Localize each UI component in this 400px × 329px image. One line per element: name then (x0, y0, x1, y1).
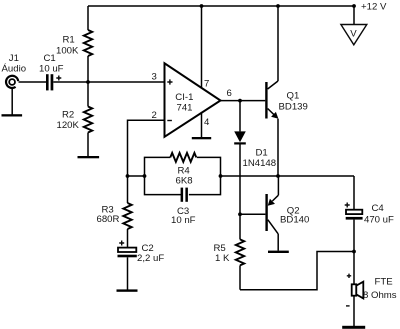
wire op-amp pin 7 to rail (201, 6, 203, 88)
power source symbol V triangle (341, 25, 367, 45)
node junction emitters / output net (276, 174, 280, 178)
node junction box right (219, 174, 223, 178)
node input bias junction (86, 80, 90, 84)
node junction Q2 base / R5 (238, 212, 242, 216)
svg-text:V: V (350, 29, 357, 40)
svg-text:Q1: Q1 (287, 91, 300, 102)
wire C1 to op-amp pin 3 (53, 81, 164, 83)
svg-text:+12 V: +12 V (361, 2, 387, 13)
node junction output / D1 anode (238, 99, 242, 103)
svg-text:8 Ohms: 8 Ohms (363, 290, 397, 301)
svg-text:2,2 uF: 2,2 uF (137, 253, 164, 264)
resistor R4 (170, 153, 196, 162)
svg-text:1N4148: 1N4148 (243, 158, 277, 169)
label R4 6K8 (176, 165, 193, 186)
svg-text:BD140: BD140 (280, 215, 309, 226)
svg-text:R2: R2 (62, 109, 74, 120)
svg-text:D1: D1 (256, 148, 268, 159)
svg-text:7: 7 (204, 79, 209, 90)
svg-text:BD139: BD139 (279, 102, 308, 113)
ground op-amp pin 4 (192, 137, 211, 139)
transistor Q2 BD140 PNP (265, 194, 278, 234)
svg-text:R1: R1 (63, 35, 75, 46)
node junction box left (143, 174, 147, 178)
capacitor C2 polarized (118, 241, 137, 290)
label D1 1N4148 (243, 148, 277, 170)
svg-text:C4: C4 (372, 203, 385, 214)
wire J1 to C1 (19, 81, 47, 83)
wire Q1 collector to rail (277, 6, 279, 81)
svg-text:680R: 680R (97, 214, 120, 225)
label R1 100K (56, 35, 79, 57)
label C2 2,2 uF (137, 243, 164, 264)
svg-text:3: 3 (152, 71, 157, 82)
svg-text:120K: 120K (57, 120, 80, 131)
wire Q2 base (240, 213, 265, 215)
ground C2 (117, 289, 138, 291)
svg-text:Áudio: Áudio (2, 64, 27, 75)
node junction rail / +12V source (352, 4, 356, 8)
node junction feedback / R3 (126, 174, 130, 178)
svg-text:6K8: 6K8 (176, 176, 193, 187)
wire Q2 emitter to output node (277, 176, 279, 195)
wire feedback network box outline (145, 157, 221, 194)
wire Q2 collector to ground (277, 234, 279, 251)
ground speaker (342, 326, 365, 329)
ground R2 (78, 156, 100, 158)
wire op-amp output pin 6 (221, 100, 266, 102)
op-amp U1 CI-1 741 (165, 63, 221, 137)
label Q1 BD139 (279, 91, 308, 113)
label C3 10 nF (171, 206, 196, 226)
node junction rail / Q1 collector (276, 4, 280, 8)
ground J1 (2, 89, 23, 117)
label R3 680R (97, 204, 120, 225)
svg-text:10 nF: 10 nF (171, 215, 196, 226)
wire +12V source stub (353, 6, 355, 25)
label R5 1 K (214, 243, 231, 264)
label C4 470 uF (364, 203, 394, 225)
resistor R5 (236, 214, 244, 289)
svg-text:6: 6 (227, 88, 232, 99)
wire R5 bottom to speaker node (240, 252, 354, 290)
capacitor C3 (181, 188, 188, 202)
ground Q2 collector (268, 251, 289, 253)
node junction C4 / speaker (352, 250, 356, 254)
connector J1 audio input jack (6, 76, 18, 88)
capacitor C1 polarized (46, 74, 61, 90)
label Q2 BD140 (280, 205, 309, 225)
svg-text:741: 741 (177, 102, 193, 113)
svg-text:10 uF: 10 uF (39, 64, 64, 75)
label C1 10 uF (39, 53, 64, 75)
wire feedback node to box (128, 175, 145, 177)
svg-text:FTE: FTE (375, 277, 393, 288)
label J1 Audio (2, 53, 27, 75)
svg-text:2: 2 (152, 110, 157, 121)
speaker FTE 8 Ohms (346, 252, 363, 327)
wire op-amp pin 2 to feedback node (128, 120, 165, 176)
label R2 120K (57, 109, 80, 131)
label FTE 8 Ohms (363, 277, 397, 301)
capacitor C4 polarized (345, 176, 363, 252)
svg-text:1 K: 1 K (215, 253, 230, 264)
label CI-1 741 (175, 92, 193, 113)
resistor R3 (123, 176, 131, 248)
svg-text:J1: J1 (9, 53, 19, 64)
svg-text:100K: 100K (56, 46, 79, 57)
wire op-amp pin 4 to ground (201, 112, 203, 137)
resistor R2 (84, 82, 92, 156)
wire Q1 emitter to output node (277, 119, 279, 176)
transistor Q1 BD139 NPN (265, 81, 278, 119)
svg-text:C1: C1 (44, 53, 56, 64)
wire output net to C4 (221, 175, 355, 177)
diode D1 1N4148 (234, 101, 246, 215)
node junction rail / op-amp pin 7 (200, 4, 204, 8)
svg-text:4: 4 (204, 117, 210, 128)
wire top +12V supply rail (88, 5, 354, 7)
resistor R1 (84, 6, 92, 82)
svg-text:470 uF: 470 uF (364, 215, 394, 226)
